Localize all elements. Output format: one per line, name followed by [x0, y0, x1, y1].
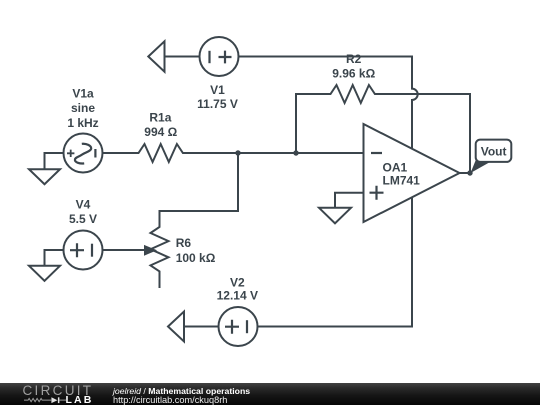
svg-text:9.96 kΩ: 9.96 kΩ [332, 67, 375, 81]
svg-text:R1a: R1a [149, 111, 171, 125]
svg-text:100 kΩ: 100 kΩ [176, 251, 216, 265]
svg-text:R6: R6 [176, 236, 192, 250]
svg-text:12.14 V: 12.14 V [217, 289, 258, 303]
svg-text:LM741: LM741 [383, 174, 421, 188]
svg-text:V1: V1 [210, 83, 225, 97]
svg-text:V4: V4 [76, 198, 91, 212]
svg-text:sine: sine [71, 101, 95, 115]
svg-text:994 Ω: 994 Ω [144, 125, 177, 139]
svg-text:5.5 V: 5.5 V [69, 212, 97, 226]
svg-text:1 kHz: 1 kHz [67, 116, 98, 130]
svg-text:R2: R2 [346, 52, 362, 66]
svg-text:11.75 V: 11.75 V [197, 97, 238, 111]
svg-text:V1a: V1a [72, 86, 94, 100]
svg-text:V2: V2 [230, 275, 245, 289]
svg-text:Vout: Vout [481, 145, 507, 159]
svg-text:OA1: OA1 [383, 160, 408, 174]
